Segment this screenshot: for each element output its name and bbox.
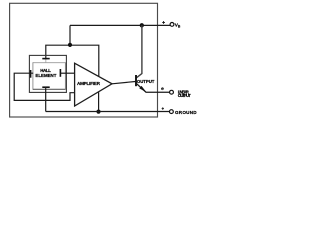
svg-text:AMPLIFIER: AMPLIFIER <box>77 81 101 86</box>
svg-text:e: e <box>161 87 164 92</box>
svg-text:OUTPUT: OUTPUT <box>178 93 191 98</box>
svg-text:OUTPUT: OUTPUT <box>137 79 155 84</box>
svg-text:ELEMENT: ELEMENT <box>35 73 56 78</box>
svg-text:GROUND: GROUND <box>175 110 197 115</box>
